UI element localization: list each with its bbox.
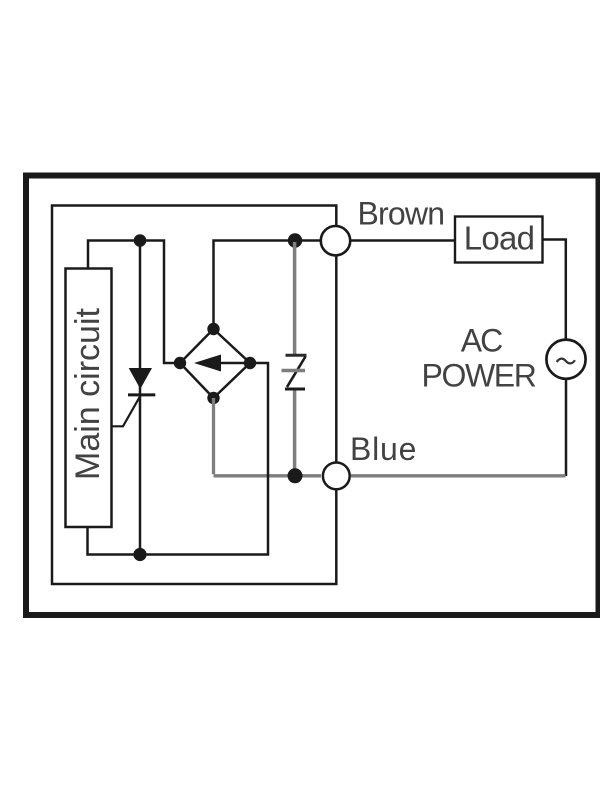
junction: Brown rail / surge absorber node [288, 233, 302, 247]
svg-text:Load: Load [464, 220, 535, 257]
wire: bridge top vertex to Brown terminal [214, 241, 321, 330]
junction: bridge right vertex [244, 357, 256, 369]
junction: bridge bottom vertex [207, 392, 219, 404]
junction: Blue rail / surge absorber bottom node [288, 468, 303, 483]
wire: bottom AC rail to Blue terminal [214, 474, 322, 477]
label AC POWER [422, 323, 536, 394]
wire: AC source to Blue rail corner [565, 379, 568, 476]
outer figure frame [26, 176, 599, 616]
svg-text:Main circuit: Main circuit [69, 307, 107, 479]
wire: surge absorber upper lead [293, 242, 297, 354]
wire: bridge right vertex to DC- rail [88, 363, 269, 555]
wire: SCR branch vertical [139, 241, 142, 555]
junction: bridge left vertex [174, 357, 186, 369]
diode bridge [180, 329, 250, 398]
wire: AC return to Blue terminal [351, 474, 566, 477]
svg-text:POWER: POWER [422, 358, 536, 394]
load box [455, 217, 543, 263]
terminal Brown [321, 226, 350, 255]
terminal Blue [323, 463, 350, 490]
svg-text:Blue: Blue [350, 431, 417, 467]
junction: SCR cathode node [133, 548, 146, 561]
wire: Brown terminal to Load [350, 239, 455, 242]
thyristor SCR [113, 368, 156, 426]
wire: Load to AC source [543, 240, 566, 340]
surge absorber Z [282, 355, 307, 389]
wire: surge absorber lower lead [293, 390, 297, 470]
sensor outline box [52, 206, 336, 585]
svg-text:AC: AC [461, 323, 502, 359]
svg-text:Brown: Brown [358, 196, 445, 232]
wire: bridge bottom vertex down [212, 398, 215, 474]
wire: main circuit top to DC+ rail [88, 241, 178, 364]
junction: bridge top vertex [207, 323, 219, 335]
AC power source [546, 340, 585, 379]
Main circuit block [66, 269, 112, 528]
junction: SCR anode node [134, 234, 147, 247]
